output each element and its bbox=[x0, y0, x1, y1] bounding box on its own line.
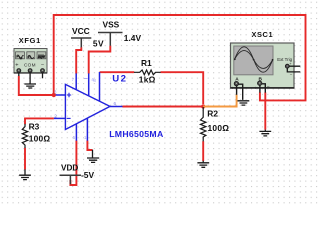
XSC1 display screen with waveforms bbox=[234, 46, 274, 75]
wire: VSS to op-amp top-right pin bbox=[89, 46, 111, 74]
svg-text:−: − bbox=[267, 85, 270, 91]
svg-text:2: 2 bbox=[54, 113, 57, 118]
wire: R3 top to op-amp - input bbox=[25, 118, 54, 124]
wire: op-amp bottom-left pin down to VDD bbox=[70, 141, 76, 186]
svg-text:VDD: VDD bbox=[61, 164, 78, 173]
svg-text:+: + bbox=[254, 86, 257, 91]
wire: top net from input node up over to scope B+ bbox=[54, 15, 306, 100]
svg-text:100Ω: 100Ω bbox=[208, 123, 230, 133]
svg-text:XSC1: XSC1 bbox=[252, 30, 274, 39]
svg-text:−: − bbox=[244, 85, 247, 91]
svg-text:+: + bbox=[15, 63, 18, 69]
power symbol VDD bbox=[60, 175, 82, 184]
svg-text:COM: COM bbox=[24, 62, 36, 67]
op-amp pin: output lead bbox=[110, 106, 123, 108]
op-amp pin: V- supply lead bbox=[75, 124, 77, 141]
op-amp pin: V+ supply lead bbox=[75, 73, 77, 89]
wire: feedback from op-amp pin 8 through R1 down to output node bbox=[100, 71, 135, 73]
XFG1 pin + (plus terminal) bbox=[17, 69, 21, 76]
svg-text:VSS: VSS bbox=[103, 19, 120, 29]
op-amp pin: ground lead bbox=[86, 118, 88, 141]
svg-text:-5V: -5V bbox=[81, 170, 94, 180]
function generator XFG1 body bbox=[14, 49, 47, 74]
wire: R2 bottom to ground bbox=[202, 141, 204, 161]
wire: orange output to scope channel A+ bbox=[203, 95, 236, 107]
svg-text:VCC: VCC bbox=[72, 26, 90, 36]
wire: VCC to op-amp top-left pin bbox=[76, 47, 81, 73]
resistor R3 bbox=[22, 124, 27, 148]
op-amp pin: gain/VG lead bbox=[88, 73, 90, 96]
wire: XFG1 plus output down and right to op-amp + input node bbox=[19, 76, 54, 95]
power symbol VCC bbox=[71, 38, 91, 47]
ground: under op-amp bbox=[87, 150, 99, 163]
op-amp pin: feedback lead bbox=[99, 72, 101, 101]
wire: scope B- down to ground bbox=[264, 92, 266, 129]
op-amp U2 triangle body bbox=[65, 84, 110, 129]
wire: op-amp bottom-right pin to ground bbox=[87, 141, 92, 151]
svg-text:LMH6505MA: LMH6505MA bbox=[109, 129, 164, 139]
ground: scope B minus bbox=[259, 130, 271, 136]
resistor R2 bbox=[201, 107, 206, 141]
svg-text:6: 6 bbox=[114, 101, 117, 106]
XSC1 Ext Trig pin bbox=[277, 57, 300, 77]
svg-text:+: + bbox=[231, 87, 234, 92]
svg-text:−: − bbox=[41, 62, 44, 68]
op-amp pin: non-inverting input lead bbox=[56, 94, 66, 96]
svg-text:1kΩ: 1kΩ bbox=[139, 75, 156, 85]
ground: under R2 bbox=[197, 161, 209, 168]
svg-text:5V: 5V bbox=[93, 39, 104, 49]
node: junction at op-amp + input bbox=[52, 93, 56, 97]
ground: under XFG1 COM bbox=[24, 84, 36, 88]
svg-text:R1: R1 bbox=[141, 58, 152, 68]
svg-text:U2: U2 bbox=[112, 73, 127, 84]
svg-text:100Ω: 100Ω bbox=[29, 133, 51, 143]
power symbol VSS bbox=[98, 33, 123, 46]
XFG1 pin - (minus terminal, unconnected stub) bbox=[41, 69, 45, 79]
svg-text:R3: R3 bbox=[29, 122, 40, 132]
ground: scope A minus bbox=[238, 101, 250, 105]
resistor R1 bbox=[134, 70, 161, 75]
svg-text:R2: R2 bbox=[207, 109, 218, 119]
wire: R3 bottom to ground bbox=[24, 148, 26, 170]
op-amp pin: inverting input lead bbox=[54, 117, 66, 119]
XSC1 channel A pin bbox=[231, 77, 247, 100]
oscilloscope XSC1 body bbox=[230, 43, 294, 88]
svg-text:1.4V: 1.4V bbox=[124, 33, 142, 43]
XSC1 channel B pin bbox=[254, 76, 270, 92]
node: output junction dot bbox=[201, 104, 205, 108]
ground: under R3 bbox=[19, 169, 31, 179]
wire: op-amp output to junction bbox=[122, 106, 203, 108]
svg-text:−: − bbox=[290, 72, 293, 77]
XFG1 pin COM bbox=[28, 69, 32, 84]
svg-text:XFG1: XFG1 bbox=[19, 36, 41, 45]
